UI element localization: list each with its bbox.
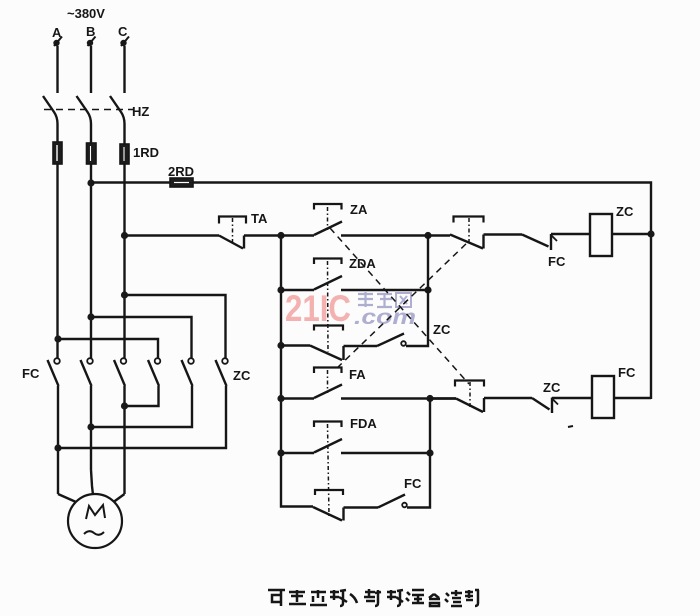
wire bottom rung right [407,453,430,508]
node C crossover (junction dot) [121,291,128,298]
wire phase B middle [90,164,92,358]
wire TA rung left [125,234,220,236]
fuse 1RD slit A [56,145,58,161]
node left rail r4 (junction dot) [277,395,284,402]
svg-text:FC: FC [548,254,566,269]
wire ZC rung mid [484,233,523,235]
wire holding rung right [406,344,428,347]
node C / TA rung (junction dot) [121,232,128,239]
node mid rail r1 (junction dot) [424,232,431,239]
wire ZDA rung left [281,289,314,291]
contact ZC main 3 [216,358,228,386]
caption character 11 [465,590,479,606]
wire return ZC3 to A [58,386,226,448]
coil FC [592,376,614,418]
contact ZC main 2 [182,358,194,386]
svg-text:TA: TA [251,211,268,226]
interlock dashed ZA to FC-branch button [330,228,469,384]
fuse 1RD phase A [53,142,62,164]
node A return (junction dot) [54,444,61,451]
watermark dianziwang glyph 1 [358,292,373,307]
svg-text:B: B [86,24,95,39]
caption character 3 [310,590,327,605]
node left rail r1 (junction dot) [277,232,284,239]
wire phase C lower [123,386,125,494]
fuse 1RD slit B [90,146,92,161]
caption character 2 [289,590,306,604]
node left rail r5 (junction dot) [277,449,284,456]
wire control tap [91,181,170,183]
svg-text:FA: FA [349,367,366,382]
wire FA rung left [281,397,314,399]
node left rail r2 (junction dot) [277,286,284,293]
switch HZ blade B [77,96,92,143]
switch HZ link (dashed) [44,109,133,111]
svg-text:C: C [118,24,128,39]
svg-text:2RD: 2RD [168,164,194,179]
svg-text:.com: .com [354,306,416,329]
wire phase B lower [90,386,92,470]
svg-text:ZC: ZC [233,368,251,383]
svg-text:FDA: FDA [350,416,377,431]
svg-text:ZDA: ZDA [349,256,376,271]
wire FC rung mid [484,397,532,399]
node B crossover (junction dot) [87,313,94,320]
fuse 1RD phase C [120,144,129,164]
wire FC coil rung left [430,397,456,399]
node mid rail r4 (junction dot) [426,395,433,402]
contact FC aux (NO self-hold) [378,495,407,508]
wire return ZC1 to C [125,386,159,406]
node B return (junction dot) [87,423,94,430]
svg-text:ZC: ZC [543,380,561,395]
watermark dianziwang glyph 3 [396,293,411,307]
node mid rail r2 (junction dot) [424,286,431,293]
contact FC main 2 [81,358,93,386]
wire FDA rung left [281,452,314,454]
caption character 10 [445,590,462,606]
wire motor lead A [58,494,76,502]
wire phase A lower [57,386,59,494]
watermark dianziwang glyph 2 [377,294,392,307]
wire ZC holding rung left [281,344,310,346]
svg-text:ZA: ZA [350,202,368,217]
wire holding rung mid [344,345,378,347]
pushbutton FDA (NO jog rev) [314,422,342,517]
switch HZ blade C [110,96,125,144]
node mid rail r5 (junction dot) [426,449,433,456]
svg-text:21IC: 21IC [285,288,351,329]
fuse 1RD phase B [87,143,97,164]
caption character 7 [387,590,403,606]
svg-text:FC: FC [404,476,422,491]
switch HZ blade A [43,96,58,142]
wire crossover B to ZC2 [91,317,192,358]
wire top control line [193,183,651,400]
wire FA rung right [341,397,456,399]
contact FC NC interlock [522,234,557,250]
wire ZC coil to right rail [612,233,651,235]
wire crossover A to ZC1 [58,339,158,358]
coil ZC [590,214,612,256]
wire return ZC2 to B [91,386,192,427]
caption character 1 [268,590,285,606]
pushbutton FA (NO start rev) [314,368,342,399]
wire FDA rung right [341,452,430,454]
node C return (junction dot) [121,402,128,409]
wire FC coil to right rail [614,397,651,399]
caption character 5 (comma) [350,594,357,603]
pushbutton ZA-linked NC (FC branch) [455,381,484,413]
caption character 4 [330,590,347,606]
motor M [68,494,122,548]
motor tilde [84,531,104,535]
contact ZDA-linked NC [310,326,344,361]
svg-text:ZC: ZC [433,322,451,337]
wire phase A top [56,46,58,93]
svg-text:ZC: ZC [616,204,634,219]
contact ZC NC interlock [532,398,558,414]
wire crossover C to ZC3 [125,295,226,358]
wire phase A middle [56,164,58,358]
wire phase C top [123,46,125,93]
node A crossover (junction dot) [54,335,61,342]
wire mid rail upper [427,236,429,346]
wire motor lead B [91,470,93,495]
wire motor lead C [114,494,125,502]
motor letter M [86,505,105,519]
terminal B [87,37,96,47]
contact ZC main 1 [148,358,160,386]
contact FDA-linked NC [313,490,344,521]
terminal C [120,37,129,47]
wire ZC coil rung left [428,234,450,236]
wire phase C middle [123,164,125,358]
svg-text:~380V: ~380V [67,6,105,21]
pushbutton TA (NC stop) [219,217,246,249]
wire ZA rung left [281,234,314,236]
fuse 1RD slit C [123,147,125,161]
pushbutton ZDA (NO jog fwd) [314,259,342,353]
node tap B (junction dot) [87,179,94,186]
node left rail r3 (junction dot) [277,342,284,349]
caption character 6 [364,589,381,606]
wire ZA rung right [341,234,428,236]
wire to FC coil [552,397,592,399]
wire mid rail lower [429,399,431,454]
noise mark [568,426,573,427]
contact FC main 3 [114,358,126,386]
svg-text:FC: FC [22,366,40,381]
node right rail / ZC coil (junction dot) [647,230,654,237]
wire TA to left rail [244,234,281,236]
wire bottom rung mid [344,506,379,508]
wire phase B top [90,46,92,93]
wire left rail [281,236,313,507]
caption character 9 [429,594,440,606]
caption character 8 [406,590,424,603]
svg-text:FC: FC [618,365,636,380]
pushbutton ZA (NO start fwd) [314,204,342,235]
interlock dashed FA to ZC-branch button [337,241,469,368]
terminal A [53,37,62,47]
contact FC main 1 [48,358,60,386]
wire to ZC coil [551,233,590,235]
pushbutton FA-linked NC (ZC branch) [450,217,484,249]
svg-text:1RD: 1RD [133,145,159,160]
contact ZC aux (NO self-hold) [377,334,406,347]
fuse 2RD [170,178,193,187]
svg-text:HZ: HZ [132,104,149,119]
wire ZDA rung right [341,289,428,291]
